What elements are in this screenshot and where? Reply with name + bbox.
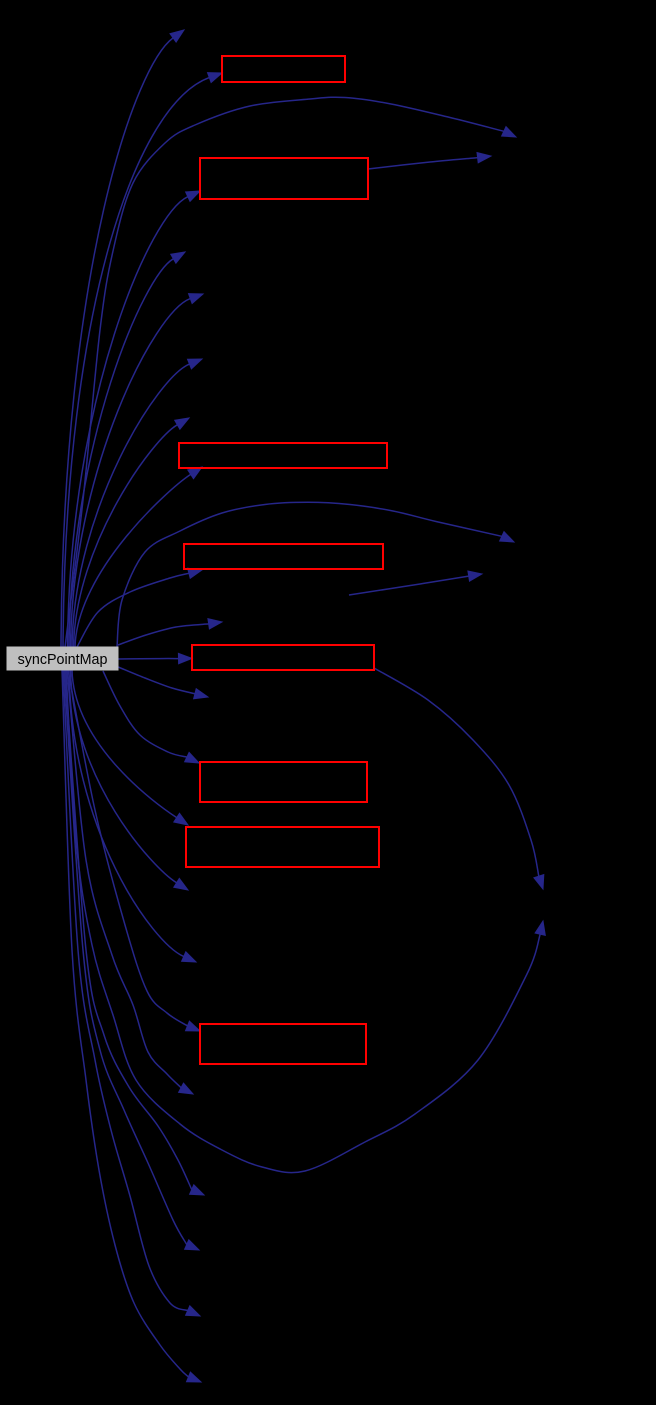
edge to hidden node row 17 — [71, 670, 189, 890]
edge arc to hidden node row 10 — [117, 502, 514, 647]
edge to box R2 — [68, 191, 201, 647]
edge to box R6 — [103, 671, 199, 763]
edge to box R4 — [77, 568, 202, 647]
node syncPointMap — [7, 647, 118, 670]
edge to hidden node row 14 — [118, 667, 208, 699]
edge to box R7 — [72, 670, 188, 825]
edge to hidden node row 18 — [69, 670, 196, 962]
edge to hidden node row 8 — [74, 418, 190, 647]
edge to hidden node row 12 — [118, 619, 222, 645]
edge long arc to hidden node row 3 — [65, 97, 516, 647]
edge to hidden node row 5 — [69, 252, 185, 647]
box R2 — [200, 158, 368, 199]
svg-text:syncPointMap: syncPointMap — [18, 652, 108, 668]
edge to hidden node row 24 — [63, 670, 200, 1316]
edge to hidden node row 23 — [64, 670, 199, 1250]
edge swoop up to hidden node (up arrow) — [66, 670, 545, 1173]
edge to box R3 — [75, 467, 202, 647]
edge to hidden node row 1 — [61, 30, 184, 647]
edge to box R5 (horizontal) — [118, 653, 192, 663]
edge from hidden node row 12 to right node — [349, 571, 482, 595]
box R1 — [222, 56, 345, 82]
edge to hidden node row 7 — [72, 359, 202, 647]
edge to box R1 — [63, 73, 222, 647]
edge to hidden node row 6 — [71, 294, 204, 647]
edge from R2 to hidden node — [368, 153, 491, 170]
edge to box R8 — [68, 670, 200, 1031]
edge to hidden node row 20 — [67, 670, 193, 1094]
box R7 — [186, 827, 379, 867]
box R6 — [200, 762, 367, 802]
box R3 — [179, 443, 387, 468]
box R8 — [200, 1024, 366, 1064]
edge from R5 down to hidden node — [374, 668, 544, 889]
edge to hidden node row 25 — [62, 670, 201, 1382]
box R5 — [192, 645, 374, 670]
edge to hidden node row 22 — [65, 670, 204, 1195]
box R4 — [184, 544, 383, 569]
